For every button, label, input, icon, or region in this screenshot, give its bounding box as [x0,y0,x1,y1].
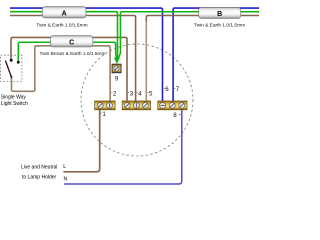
wire 8: neutral to lamp holder N [64,106,182,184]
node terminal 6 label [164,86,170,93]
svg-text:5: 5 [149,90,153,97]
svg-text:B: B [217,11,222,18]
wire cable A earth green [10,12,118,59]
switch lever [5,61,11,77]
node terminal 3 label [128,90,134,97]
svg-text:A: A [62,10,67,17]
node terminal 8 label [173,112,181,119]
node terminal 7 label [174,86,180,93]
svg-text:N: N [64,177,68,183]
terminal 9 earth [112,64,121,73]
cable sheath C [51,36,93,47]
svg-text:2: 2 [113,90,117,97]
svg-text:Live and Neutral: Live and Neutral [21,164,57,170]
svg-text:6: 6 [165,86,169,93]
switch contact dot earth [17,61,20,64]
svg-text:3: 3 [130,90,134,97]
wire cable A blue: live-in neutral to terminal 6 [10,8,163,103]
wire cable C brown feed: terminal 3 to switch [11,37,127,103]
node terminal 1 label [101,111,107,118]
cable sheath A [42,7,86,18]
svg-text:7: 7 [176,86,180,93]
svg-text:C: C [69,39,74,46]
wire cable A brown: live to terminal 4 [10,16,136,104]
cable sheath B [199,7,241,18]
svg-text:Single Way: Single Way [1,94,27,100]
terminal block 1-2 switched live [95,101,115,110]
svg-text:Twin & Earth 1.0/1.5mm: Twin & Earth 1.0/1.5mm [36,22,87,28]
svg-text:to Lamp Holder: to Lamp Holder [22,175,57,181]
svg-text:1: 1 [102,111,106,118]
wire cable B blue: neutral to terminal 7 [173,8,259,103]
svg-text:8: 8 [173,112,177,119]
wire cable B brown: live to terminal 5 [146,16,259,23]
wire cable C switched live: switch to terminal 2 [12,46,111,103]
node terminal 5 label [147,90,153,97]
ceiling rose dashed circle [81,44,193,156]
wire 1: switched live to lamp holder L [63,106,99,172]
svg-text:4: 4 [138,90,142,97]
svg-text:Light Switch: Light Switch [1,101,28,107]
wire cable B earth green [118,12,259,59]
node terminal 4 label [137,90,143,97]
svg-text:9: 9 [115,76,119,83]
terminal block 6-7-8 neutral [158,101,187,110]
svg-text:Twin & Earth 1.0/1.5mm: Twin & Earth 1.0/1.5mm [194,23,245,29]
terminal block 3-4-5 live loop [122,101,150,110]
switch dashed box [1,55,22,81]
switch contact dot brown [10,59,13,62]
wire cable C earth green [18,42,116,62]
earth arrow into terminal 9 [114,58,120,64]
svg-text:Twin Brown & Earth 1.0/1.5mm: Twin Brown & Earth 1.0/1.5mm [39,51,105,57]
switch pivot dot [10,76,12,78]
node terminal 2 label [111,90,117,97]
svg-text:L: L [63,164,66,170]
